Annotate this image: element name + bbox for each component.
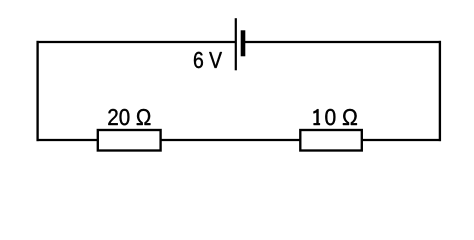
wire: right vertical xyxy=(439,41,441,141)
battery V1: short thick negative plate xyxy=(241,30,246,56)
resistor R2: 10 ohm box xyxy=(300,130,362,151)
wire: top-left segment from left corner to battery xyxy=(37,41,236,43)
battery value label: 6 V xyxy=(194,52,222,68)
wire: bottom-right segment from resistor R2 to right corner xyxy=(361,139,441,141)
wire: bottom-left segment to resistor R1 xyxy=(37,139,99,141)
resistor R2 value label: 10 ohm xyxy=(314,109,357,125)
wire: left vertical xyxy=(36,41,38,141)
resistor R1: 20 ohm box xyxy=(98,130,161,151)
battery V1: long positive plate xyxy=(235,18,237,70)
wire: top-right segment from battery to right corner xyxy=(243,41,441,43)
wire: bottom middle segment between resistors xyxy=(160,139,301,141)
resistor R1 value label: 20 ohm xyxy=(108,109,150,125)
